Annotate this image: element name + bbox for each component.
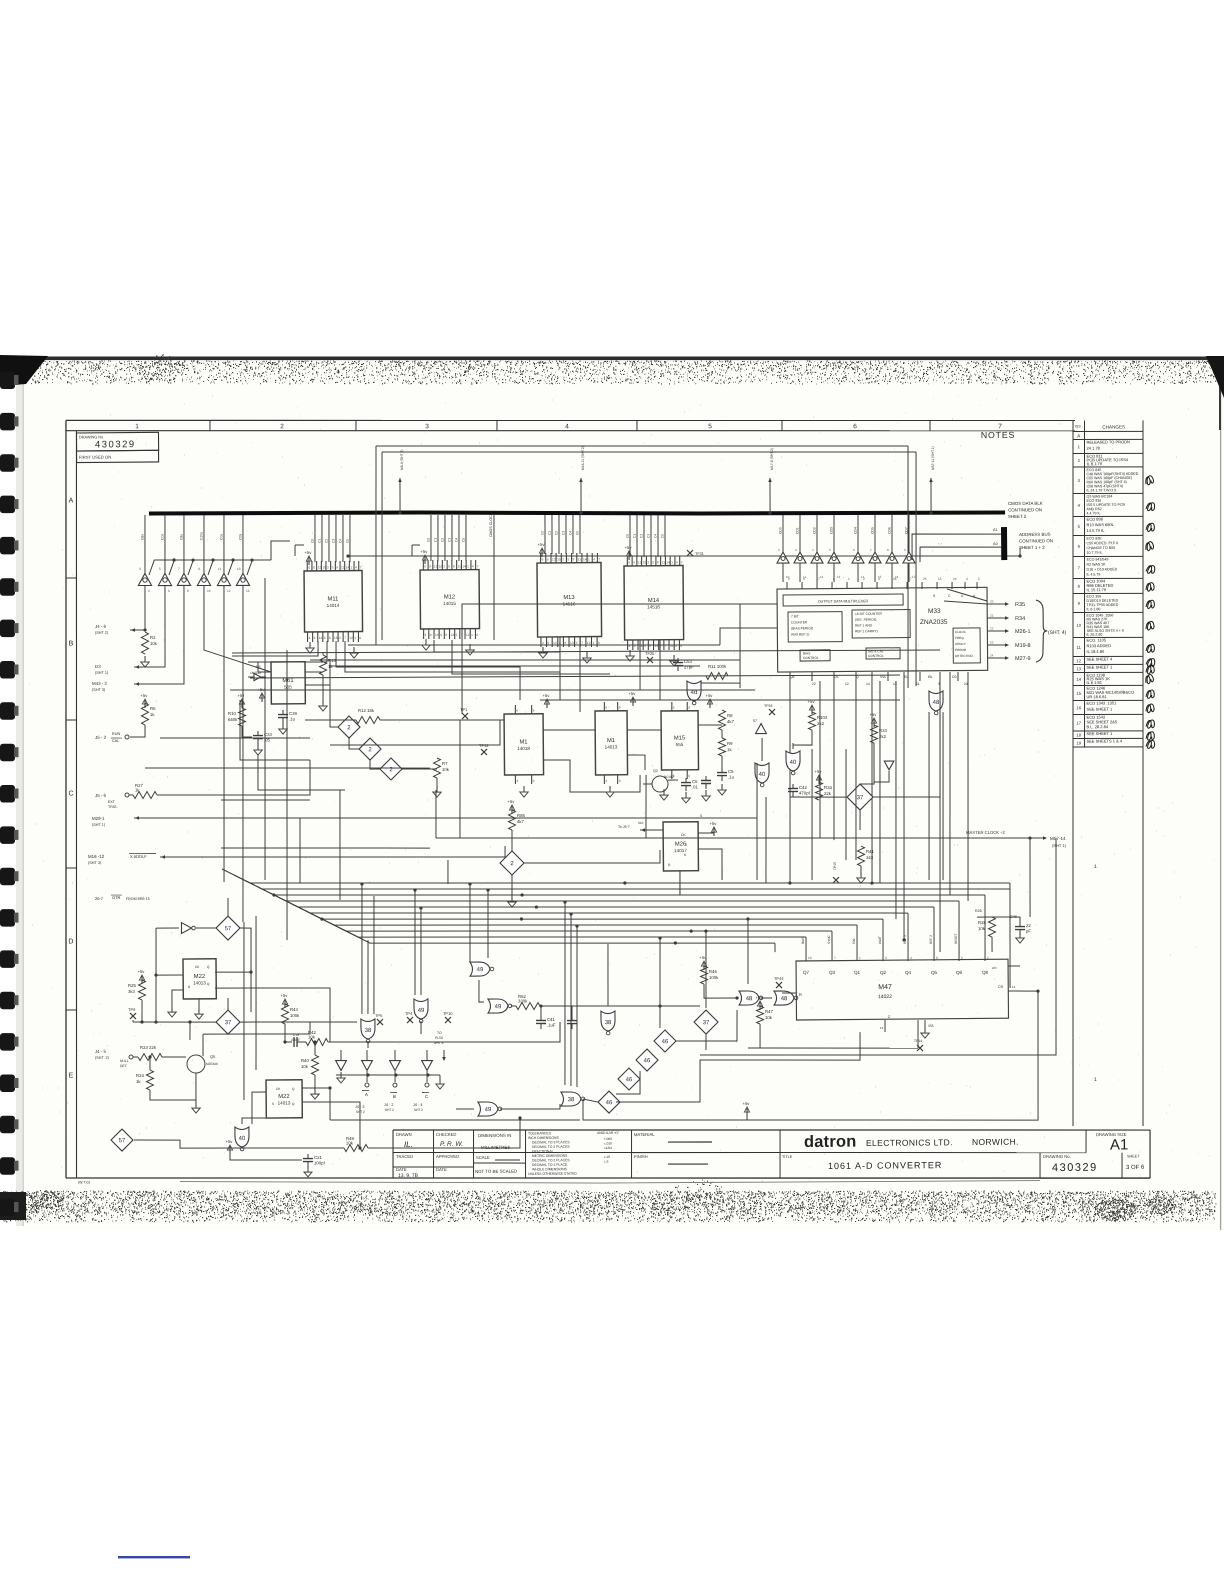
svg-text:Eb: Eb — [928, 675, 932, 679]
svg-text:(SHT. 4): (SHT. 4) — [1048, 630, 1067, 636]
svg-text:11: 11 — [341, 565, 345, 569]
svg-text:3: 3 — [139, 567, 141, 571]
svg-text:4: 4 — [593, 557, 595, 561]
svg-text:Q5: Q5 — [931, 970, 938, 975]
svg-text:18: 18 — [1076, 733, 1081, 738]
svg-text:TF31: TF31 — [695, 552, 704, 556]
svg-text:M26-1: M26-1 — [1015, 629, 1031, 635]
svg-text:9: 9 — [429, 564, 431, 568]
svg-text:4: 4 — [542, 641, 544, 645]
svg-text:V55: V55 — [928, 1024, 934, 1028]
svg-text:14014: 14014 — [327, 603, 340, 608]
svg-text:470pf: 470pf — [799, 790, 811, 795]
svg-text:C3: C3 — [562, 531, 566, 535]
svg-text:8: 8 — [453, 564, 455, 568]
svg-text:7: 7 — [834, 956, 836, 960]
svg-text:13. 9. 7B: 13. 9. 7B — [398, 1173, 419, 1179]
svg-text:10k: 10k — [308, 1034, 316, 1039]
svg-text:14516: 14516 — [647, 604, 660, 609]
svg-text:8: 8 — [936, 956, 938, 960]
svg-text:6: 6 — [605, 705, 607, 709]
svg-text:4: 4 — [148, 589, 150, 593]
svg-text:9: 9 — [314, 636, 316, 640]
svg-text:+5v: +5v — [304, 550, 312, 555]
svg-text:4: 4 — [565, 423, 569, 430]
svg-text:C10s: C10s — [199, 532, 203, 540]
svg-text:15: 15 — [938, 577, 942, 581]
svg-text:14018: 14018 — [517, 746, 530, 751]
svg-text:X ADDLF: X ADDLF — [130, 854, 147, 859]
svg-text:1: 1 — [1094, 864, 1097, 870]
svg-text:MILLIMETRES: MILLIMETRES — [481, 1145, 510, 1150]
svg-text:UNLESS OTHERWISE STATED: UNLESS OTHERWISE STATED — [528, 1172, 577, 1176]
svg-text:DATE: DATE — [436, 1167, 447, 1172]
svg-text:1: 1 — [350, 566, 352, 570]
svg-text:TP5: TP5 — [375, 1013, 383, 1018]
svg-text:CD2: CD2 — [812, 527, 816, 534]
svg-text:6: 6 — [424, 564, 426, 568]
svg-text:12: 12 — [845, 682, 849, 686]
svg-text:CMOS CLOCK: CMOS CLOCK — [489, 512, 493, 537]
svg-text:10k: 10k — [442, 767, 450, 772]
svg-text:R103 ADDED: R103 ADDED — [1086, 643, 1111, 648]
svg-text:13: 13 — [837, 575, 841, 579]
svg-text:5: 5 — [159, 567, 161, 571]
svg-text:40: 40 — [790, 760, 797, 766]
svg-text:SEE SHEET 1: SEE SHEET 1 — [1087, 731, 1114, 736]
svg-text:(SHT 3): (SHT 3) — [92, 688, 106, 692]
svg-text:FIRST USED ON: FIRST USED ON — [79, 455, 111, 460]
svg-text:9: 9 — [533, 779, 535, 783]
svg-text:(SHT 1): (SHT 1) — [95, 671, 109, 675]
svg-text:C3: C3 — [447, 538, 451, 542]
svg-text:14: 14 — [1012, 985, 1016, 989]
svg-text:2: 2 — [280, 423, 284, 430]
svg-text:O3: O3 — [952, 675, 957, 679]
svg-text:J4 - 6: J4 - 6 — [95, 624, 107, 629]
svg-text:A1: A1 — [993, 528, 998, 532]
svg-text:COUNTER: COUNTER — [791, 620, 808, 624]
svg-text:1: 1 — [135, 423, 139, 430]
svg-text:7: 7 — [818, 577, 820, 581]
svg-text:ERROR: ERROR — [955, 648, 967, 652]
svg-text:6: 6 — [542, 558, 544, 562]
svg-text:14: 14 — [435, 633, 439, 637]
svg-text:46: 46 — [606, 1100, 613, 1106]
svg-text:R25: R25 — [128, 983, 137, 988]
svg-text:13: 13 — [880, 1026, 884, 1030]
svg-text:±.5: ±.5 — [604, 1159, 609, 1163]
svg-text:16 BIT COUNTER: 16 BIT COUNTER — [855, 612, 883, 616]
svg-text:C0s: C0s — [219, 534, 223, 540]
svg-text:(SHT 2): (SHT 2) — [95, 631, 109, 635]
svg-text:9: 9 — [533, 708, 535, 712]
svg-text:D: D — [68, 938, 73, 945]
svg-text:11: 11 — [1077, 645, 1082, 650]
svg-text:R40: R40 — [301, 1058, 310, 1063]
svg-text:5: 5 — [978, 577, 980, 581]
svg-text:M14: M14 — [648, 598, 660, 604]
svg-text:TRACED: TRACED — [396, 1154, 413, 1159]
svg-text:8: 8 — [573, 558, 575, 562]
svg-text:(SHT 3): (SHT 3) — [88, 861, 102, 865]
svg-text:24: 24 — [953, 577, 957, 581]
svg-text:±.25: ±.25 — [604, 1155, 610, 1159]
svg-text:CONTROL: CONTROL — [868, 654, 884, 658]
svg-text:48: 48 — [746, 996, 753, 1002]
svg-text:38: 38 — [605, 1020, 612, 1026]
svg-text:CD1: CD1 — [795, 527, 799, 534]
svg-text:C6: C6 — [692, 779, 698, 784]
svg-text:CONTINUED ON: CONTINUED ON — [1008, 507, 1042, 512]
svg-text:SEE SHEET 1: SEE SHEET 1 — [1086, 664, 1113, 669]
svg-text:4: 4 — [425, 633, 427, 637]
svg-text:6: 6 — [476, 633, 478, 637]
svg-text:M22: M22 — [194, 974, 205, 980]
svg-text:8: 8 — [803, 577, 805, 581]
svg-text:EL: EL — [904, 675, 908, 679]
svg-text:10k: 10k — [301, 1064, 309, 1069]
svg-text:SHT 2: SHT 2 — [356, 1110, 365, 1114]
svg-text:9: 9 — [548, 641, 550, 645]
svg-text:49: 49 — [477, 967, 484, 973]
svg-text:24.1.78: 24.1.78 — [1087, 446, 1101, 451]
svg-text:R8: R8 — [727, 713, 733, 718]
svg-text:5: 5 — [708, 423, 712, 430]
svg-text:(SHT 1): (SHT 1) — [92, 823, 106, 827]
svg-text:14: 14 — [553, 641, 557, 645]
svg-text:430329: 430329 — [95, 439, 136, 450]
svg-text:BIAS: BIAS — [801, 937, 805, 944]
svg-text:A0: A0 — [993, 542, 998, 546]
svg-text:48: 48 — [933, 700, 940, 706]
svg-text:M13: M13 — [563, 595, 574, 601]
svg-text:R2: R2 — [150, 635, 156, 640]
svg-text:ECO 1343 .1351: ECO 1343 .1351 — [1086, 700, 1117, 705]
svg-text:4k7: 4k7 — [517, 819, 525, 824]
svg-text:P. R. W.: P. R. W. — [440, 1141, 463, 1148]
svg-text:343: 343 — [866, 855, 874, 860]
svg-text:REF 2 CARRY): REF 2 CARRY) — [855, 629, 878, 633]
svg-text:C5: C5 — [461, 538, 465, 542]
svg-text:DETECTING: DETECTING — [955, 654, 974, 658]
svg-text:R28: R28 — [978, 920, 987, 925]
svg-text:14013: 14013 — [193, 980, 206, 985]
svg-text:4: 4 — [355, 565, 357, 569]
svg-text:SEE SHEETS 1 & 4: SEE SHEETS 1 & 4 — [1086, 738, 1122, 743]
svg-text:ADDRESS BUS: ADDRESS BUS — [1019, 532, 1051, 537]
svg-text:IL 4.5.79: IL 4.5.79 — [1086, 573, 1100, 577]
svg-text:C42: C42 — [799, 785, 808, 790]
svg-text:J4 - 4: J4 - 4 — [413, 1103, 423, 1107]
svg-text:Q2: Q2 — [653, 769, 658, 773]
svg-text:CONTINUED ON: CONTINUED ON — [1019, 538, 1053, 543]
svg-text:ECO 896: ECO 896 — [1087, 517, 1104, 522]
svg-text:CD5: CD5 — [870, 527, 874, 534]
svg-text:CD4: CD4 — [853, 527, 857, 534]
svg-text:14: 14 — [1076, 677, 1081, 682]
svg-text:6: 6 — [359, 636, 361, 640]
svg-text:3: 3 — [878, 577, 880, 581]
svg-text:46: 46 — [644, 1058, 651, 1064]
svg-text:+5v: +5v — [137, 969, 145, 974]
svg-text:37: 37 — [225, 1020, 232, 1026]
svg-text:C0: C0 — [426, 538, 430, 542]
svg-text:5: 5 — [448, 564, 450, 568]
svg-text:6: 6 — [673, 706, 675, 710]
svg-text:Q7: Q7 — [803, 970, 810, 975]
svg-text:10k: 10k — [978, 926, 986, 931]
svg-text:1: 1 — [671, 561, 673, 565]
svg-text:C5: C5 — [728, 769, 734, 774]
svg-text:7: 7 — [477, 564, 479, 568]
svg-text:15: 15 — [1076, 691, 1081, 696]
svg-text:14: 14 — [583, 557, 587, 561]
svg-text:MATERIAL: MATERIAL — [634, 1132, 655, 1137]
svg-text:ISS: ISS — [1075, 424, 1081, 428]
svg-text:J5 - 6: J5 - 6 — [95, 793, 107, 798]
svg-text:13: 13 — [334, 636, 338, 640]
svg-text:4k7: 4k7 — [727, 719, 735, 724]
svg-text:49: 49 — [485, 1107, 492, 1113]
svg-text:TITLE: TITLE — [782, 1155, 793, 1159]
svg-text:9: 9 — [430, 633, 432, 637]
svg-text:+5v: +5v — [280, 993, 288, 998]
svg-text:500-: 500- — [852, 938, 856, 944]
svg-text:M33: M33 — [928, 608, 941, 615]
svg-text:3: 3 — [324, 636, 326, 640]
svg-text:2: 2 — [456, 633, 458, 637]
svg-text:57: 57 — [225, 926, 232, 932]
svg-text:M11: M11 — [328, 596, 339, 602]
svg-text:TP9: TP9 — [128, 1007, 136, 1012]
svg-text:9: 9 — [633, 561, 635, 565]
svg-text:D6: D6 — [256, 665, 261, 669]
svg-text:1: 1 — [859, 956, 861, 960]
svg-text:M17-8 (SHT.2): M17-8 (SHT.2) — [770, 448, 774, 470]
svg-text:CD7: CD7 — [904, 527, 908, 534]
svg-text:C1: C1 — [632, 534, 636, 538]
svg-text:4: 4 — [966, 577, 968, 581]
svg-text:R11 100k: R11 100k — [708, 664, 727, 669]
svg-text:100pf: 100pf — [314, 1160, 326, 1165]
svg-text:7: 7 — [598, 558, 600, 562]
svg-text:C3: C3 — [331, 539, 335, 543]
svg-text:R23 22k: R23 22k — [140, 1045, 157, 1050]
svg-text:C5: C5 — [345, 539, 349, 543]
svg-text:M6-9 (SHT 2): M6-9 (SHT 2) — [400, 449, 404, 470]
svg-text:(BIAS PERIOD: (BIAS PERIOD — [791, 626, 814, 630]
svg-text:22: 22 — [990, 627, 994, 631]
svg-text:+5v: +5v — [542, 693, 550, 698]
svg-text:Q8: Q8 — [982, 970, 989, 975]
svg-text:555: 555 — [284, 685, 292, 690]
svg-text:40: 40 — [239, 1136, 246, 1142]
svg-text:3 OF 6: 3 OF 6 — [1126, 1165, 1145, 1171]
svg-text:C4: C4 — [569, 531, 573, 535]
svg-text:M12: M12 — [444, 594, 455, 600]
svg-text:J4 - 2: J4 - 2 — [384, 1103, 394, 1107]
svg-text:J4 - 3: J4 - 3 — [355, 1105, 365, 1109]
svg-text:D3: D3 — [95, 664, 101, 669]
svg-text:SHEET: SHEET — [1127, 1154, 1140, 1158]
svg-text:C41: C41 — [547, 1017, 556, 1022]
svg-text:R13: R13 — [328, 658, 337, 663]
svg-text:R9: R9 — [727, 741, 733, 746]
svg-text:+5v: +5v — [709, 821, 717, 826]
svg-text:ECO 941/549: ECO 941/549 — [1087, 557, 1109, 561]
svg-text:11: 11 — [218, 567, 222, 571]
svg-text:CR: CR — [998, 985, 1004, 989]
svg-text:C0: C0 — [541, 531, 545, 535]
svg-text:2: 2 — [647, 561, 649, 565]
svg-text:RUN: RUN — [112, 732, 121, 736]
svg-text:+5v: +5v — [742, 1101, 750, 1106]
svg-text:M1: M1 — [519, 739, 527, 745]
svg-text:C: C — [68, 790, 73, 797]
svg-text:SHT 2: SHT 2 — [385, 1108, 394, 1112]
svg-text:2k2: 2k2 — [817, 721, 825, 726]
svg-text:R7: R7 — [442, 761, 448, 766]
svg-text:4.4.79 IL: 4.4.79 IL — [1086, 511, 1100, 515]
svg-text:12: 12 — [434, 564, 438, 568]
svg-text:E: E — [69, 1072, 74, 1079]
svg-text:R10 WAS 680L: R10 WAS 680L — [1086, 522, 1114, 527]
svg-text:22k: 22k — [824, 791, 832, 796]
svg-text:CLOCK: CLOCK — [955, 630, 967, 634]
svg-text:NOT TO BE SCALED: NOT TO BE SCALED — [475, 1169, 517, 1174]
svg-text:15: 15 — [557, 557, 561, 561]
svg-text:+5v: +5v — [538, 542, 546, 547]
svg-text:10k: 10k — [150, 641, 158, 646]
svg-text:J4 - 5: J4 - 5 — [95, 1049, 107, 1054]
svg-text:7: 7 — [360, 566, 362, 570]
svg-text:+5v: +5v — [237, 693, 245, 698]
svg-text:R34: R34 — [1015, 616, 1025, 622]
svg-text:pF: pF — [1026, 929, 1031, 934]
svg-text:IL 8.1.79: IL 8.1.79 — [1087, 461, 1103, 466]
svg-text:8: 8 — [445, 633, 447, 637]
svg-text:M22: M22 — [278, 1094, 289, 1100]
svg-text:ECO. 1105: ECO. 1105 — [1087, 637, 1107, 642]
svg-text:IL 6.1.81: IL 6.1.81 — [1086, 680, 1102, 685]
svg-text:10: 10 — [808, 956, 812, 960]
svg-text:C55 ADDED. PL5 II: C55 ADDED. PL5 II — [1087, 541, 1118, 545]
svg-text:38: 38 — [365, 1028, 372, 1034]
svg-text:DRAWN: DRAWN — [396, 1132, 412, 1137]
svg-text:APPROVED: APPROVED — [436, 1154, 459, 1159]
svg-text:DRAWING No.: DRAWING No. — [1043, 1154, 1071, 1159]
svg-text:C2: C2 — [440, 538, 444, 542]
svg-text:CK: CK — [681, 833, 686, 837]
svg-text:FROM M56-15: FROM M56-15 — [126, 897, 150, 901]
svg-text:M47: M47 — [878, 984, 892, 991]
svg-text:7: 7 — [581, 641, 583, 645]
svg-text:C9s: C9s — [179, 534, 183, 540]
svg-text:Q4: Q4 — [905, 970, 912, 975]
svg-text:6: 6 — [853, 423, 857, 430]
svg-text:C2: C2 — [324, 539, 328, 543]
svg-text:1061 A-D CONVERTER: 1061 A-D CONVERTER — [828, 1160, 942, 1171]
svg-text:RELEASED TO PRODN: RELEASED TO PRODN — [1086, 439, 1130, 444]
svg-text:UENCY: UENCY — [955, 642, 966, 646]
svg-text:10: 10 — [1076, 623, 1081, 628]
svg-text:C4: C4 — [338, 539, 342, 543]
svg-text:R35: R35 — [1015, 602, 1025, 608]
svg-text:B: B — [69, 640, 74, 647]
svg-text:11: 11 — [458, 564, 462, 568]
svg-text:23: 23 — [990, 641, 994, 645]
svg-text:R34: R34 — [824, 785, 833, 790]
svg-text:B: B — [393, 1094, 396, 1099]
svg-text:C4: C4 — [454, 538, 458, 542]
svg-text:R6: R6 — [150, 706, 156, 711]
svg-text:27pF: 27pF — [684, 664, 694, 669]
svg-text:Q5: Q5 — [210, 1054, 216, 1059]
svg-text:(SIG. PERIOD,: (SIG. PERIOD, — [855, 618, 877, 622]
svg-text:M61: M61 — [282, 678, 293, 684]
svg-text:8: 8 — [187, 589, 189, 593]
svg-text:±.005: ±.005 — [604, 1137, 612, 1141]
svg-text:C39: C39 — [289, 711, 298, 716]
svg-text:SHT 4: SHT 4 — [434, 1041, 444, 1045]
svg-text:12: 12 — [466, 633, 470, 637]
svg-text:C4: C4 — [653, 534, 657, 538]
svg-text:12: 12 — [587, 641, 591, 645]
svg-text:4: 4 — [605, 779, 607, 783]
svg-text:M19-8: M19-8 — [1015, 643, 1031, 649]
svg-text:S: S — [272, 1102, 274, 1106]
svg-text:+5v: +5v — [625, 545, 633, 550]
svg-text:CONTROL: CONTROL — [803, 656, 819, 660]
svg-text:330k: 330k — [518, 998, 528, 1003]
svg-text:(W.T.G): (W.T.G) — [78, 1180, 90, 1184]
svg-text:R46: R46 — [709, 969, 718, 974]
svg-text:TP10: TP10 — [443, 1011, 453, 1016]
svg-text:6: 6 — [833, 577, 835, 581]
svg-text:8: 8 — [329, 636, 331, 640]
svg-text:+5v: +5v — [507, 799, 515, 804]
svg-text:datron: datron — [804, 1133, 857, 1151]
svg-text:14.5.79 IL: 14.5.79 IL — [1087, 528, 1106, 533]
svg-text:.1uF: .1uF — [547, 1022, 556, 1027]
svg-text:100k: 100k — [709, 975, 719, 980]
svg-text:10: 10 — [207, 589, 211, 593]
svg-text:6: 6 — [168, 589, 170, 593]
svg-text:1: 1 — [354, 636, 356, 640]
svg-text:11: 11 — [578, 557, 582, 561]
svg-text:SEE SHEET 4: SEE SHEET 4 — [1086, 656, 1113, 661]
svg-text:C2: C2 — [639, 534, 643, 538]
svg-text:4: 4 — [516, 779, 518, 783]
svg-text:9: 9 — [619, 779, 621, 783]
svg-text:SEE SHEET 1: SEE SHEET 1 — [1087, 706, 1114, 711]
svg-text:14022: 14022 — [878, 994, 892, 1000]
svg-text:C5: C5 — [660, 534, 664, 538]
svg-text:J5 - 3: J5 - 3 — [95, 735, 107, 740]
svg-text:3: 3 — [440, 633, 442, 637]
svg-text:R10: R10 — [228, 711, 237, 716]
svg-text:D18 + D19 ADDED: D18 + D19 ADDED — [1087, 567, 1118, 571]
svg-text:3k3: 3k3 — [128, 989, 136, 994]
svg-text:M1: M1 — [607, 738, 615, 744]
svg-text:24: 24 — [964, 682, 968, 686]
svg-text:7: 7 — [344, 636, 346, 640]
svg-text:M57-14: M57-14 — [1050, 836, 1066, 841]
svg-text:+5v: +5v — [258, 687, 266, 692]
svg-text:4: 4 — [309, 636, 311, 640]
svg-text:C2: C2 — [555, 531, 559, 535]
